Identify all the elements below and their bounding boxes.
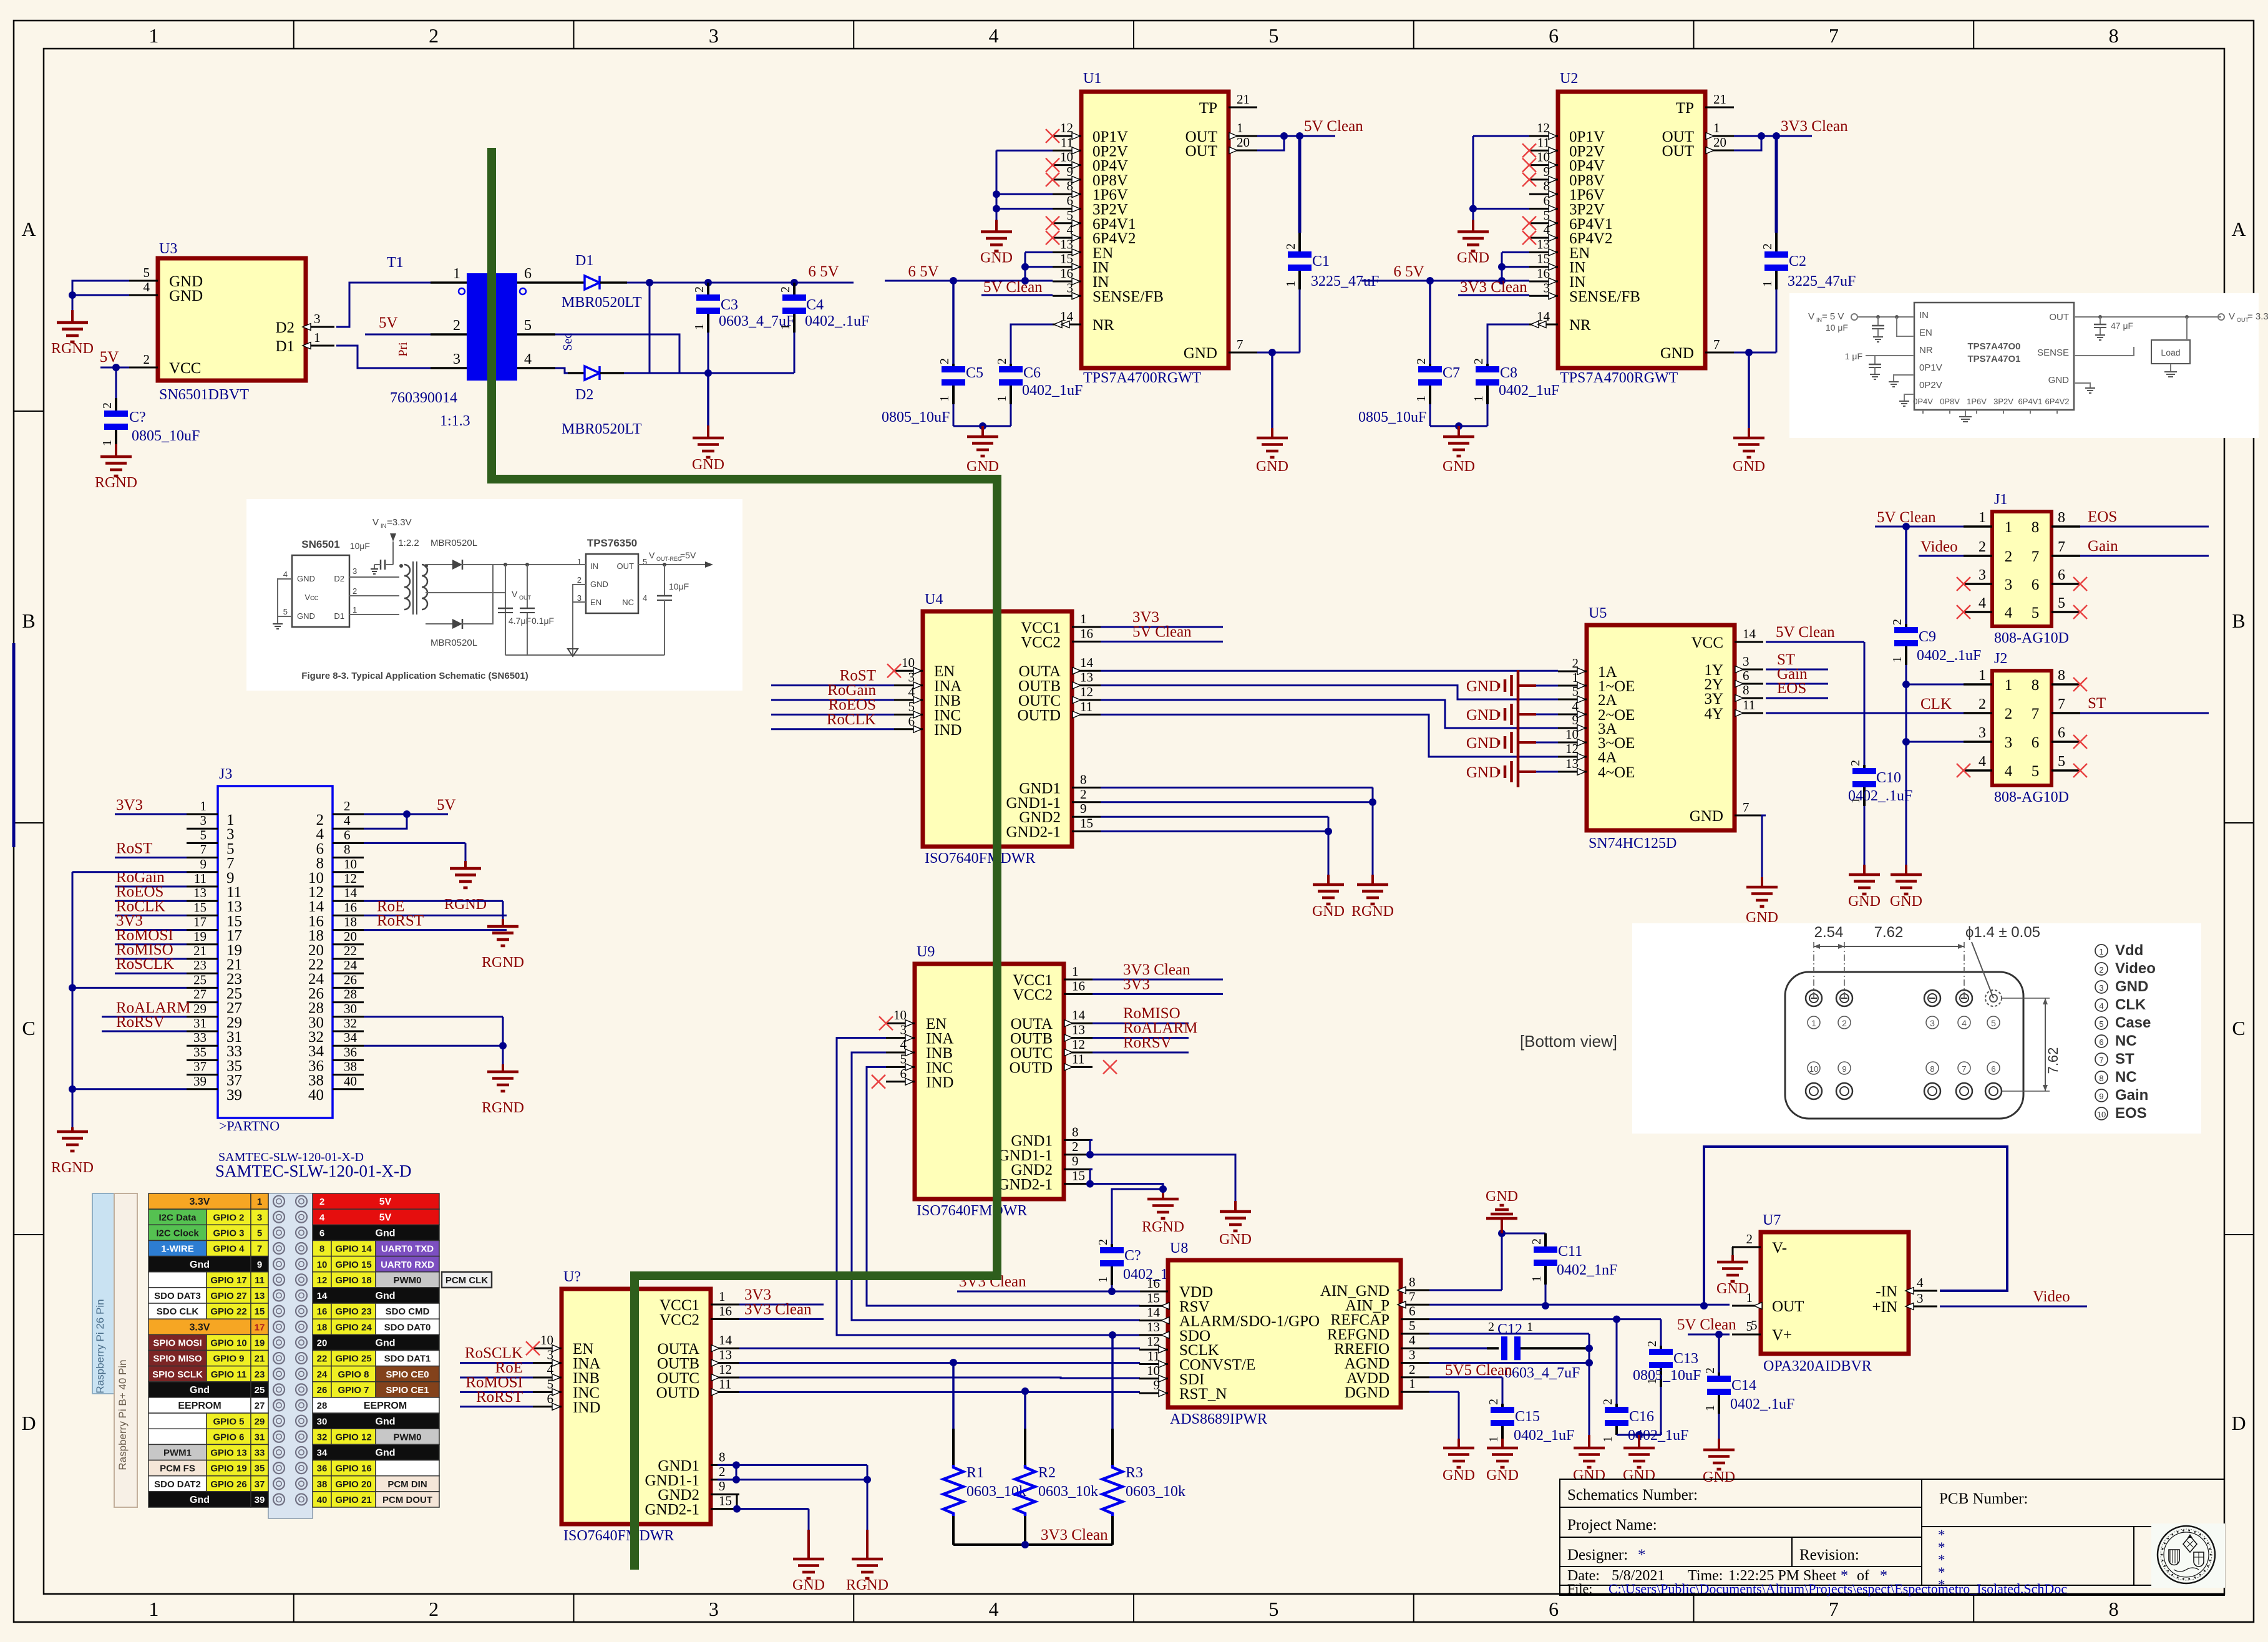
- svg-text:6: 6: [344, 827, 351, 842]
- svg-text:1: 1: [453, 266, 460, 282]
- svg-text:4: 4: [989, 24, 999, 47]
- svg-text:D: D: [2231, 1412, 2246, 1434]
- wire J2 pin7 ST: [2080, 712, 2209, 714]
- svg-text:GND: GND: [1466, 764, 1500, 781]
- svg-text:1: 1: [995, 396, 1009, 402]
- svg-text:PCM DOUT: PCM DOUT: [382, 1495, 432, 1505]
- wire U5 1Y: [1766, 669, 1828, 671]
- svg-text:Project Name:: Project Name:: [1567, 1517, 1657, 1533]
- svg-text:0P8V: 0P8V: [1940, 397, 1960, 406]
- power RGND below U?: [846, 1530, 888, 1593]
- svg-text:39: 39: [255, 1495, 265, 1505]
- svg-text:C7: C7: [1443, 365, 1460, 381]
- svg-text:15: 15: [1072, 1168, 1085, 1183]
- svg-text:RGND: RGND: [51, 1160, 94, 1176]
- svg-text:=3.3V: =3.3V: [387, 517, 412, 528]
- svg-text:13: 13: [1060, 236, 1073, 251]
- svg-text:NR: NR: [1093, 317, 1114, 334]
- svg-text:U7: U7: [1763, 1212, 1781, 1228]
- net label RoRST (J3 pin18): [377, 913, 424, 930]
- svg-text:2: 2: [1601, 1399, 1615, 1405]
- svg-text:C: C: [2232, 1017, 2245, 1039]
- svg-text:1 μF: 1 μF: [1845, 351, 1862, 361]
- junction U? gnd2: [733, 1505, 741, 1513]
- net label 5V_Clean (U5 VCC): [1776, 624, 1835, 641]
- wire U1 OUT to 5V_Clean: [1257, 136, 1335, 150]
- svg-text:0402_.1uF: 0402_.1uF: [805, 313, 869, 329]
- svg-text:13: 13: [255, 1291, 265, 1301]
- junction U2 5V rail: [1426, 277, 1506, 284]
- svg-text:GND: GND: [1486, 1188, 1518, 1205]
- net label Video (U7): [2033, 1288, 2070, 1305]
- svg-text:GPIO 27: GPIO 27: [210, 1291, 246, 1301]
- power GND below C5C6: [966, 426, 999, 475]
- svg-text:30: 30: [344, 1001, 357, 1016]
- junction U1 5V rail: [950, 277, 1029, 284]
- svg-text:GPIO 18: GPIO 18: [335, 1275, 371, 1286]
- svg-text:[Bottom view]: [Bottom view]: [1520, 1032, 1617, 1051]
- junction R3 top: [1109, 1331, 1116, 1339]
- svg-text:OUT-REG: OUT-REG: [656, 556, 682, 562]
- svg-text:12: 12: [344, 871, 357, 886]
- svg-text:C4: C4: [806, 297, 824, 313]
- net label RoEOS (U4): [829, 696, 876, 713]
- svg-text:8: 8: [2032, 519, 2040, 536]
- svg-text:8: 8: [344, 842, 351, 857]
- wire U2 OUT to 3V3_Clean: [1734, 136, 1812, 150]
- svg-text:U2: U2: [1560, 70, 1578, 87]
- power GND below C14: [1703, 1439, 1735, 1485]
- junction U9 gnd1: [1086, 1151, 1094, 1159]
- logo seal (university coat of arms): [2151, 1523, 2225, 1588]
- svg-text:35: 35: [255, 1464, 265, 1474]
- svg-text:7: 7: [1962, 1064, 1966, 1074]
- wire U4 OUTC to U5 3A: [1101, 700, 1558, 728]
- net label EOS (U5 3Y): [1777, 680, 1806, 697]
- svg-text:GND: GND: [1486, 1467, 1519, 1484]
- svg-text:GND: GND: [1660, 345, 1694, 362]
- svg-text:3V3 Clean: 3V3 Clean: [744, 1301, 812, 1318]
- svg-text:5V: 5V: [379, 1197, 392, 1207]
- power RGND below U9: [1142, 1199, 1184, 1235]
- net label RoST (U4): [840, 668, 876, 684]
- svg-text:2: 2: [353, 586, 357, 596]
- svg-text:7: 7: [2032, 548, 2040, 565]
- svg-text:2: 2: [1096, 1239, 1110, 1245]
- svg-text:7: 7: [1409, 1289, 1416, 1304]
- svg-text:Gnd: Gnd: [376, 1228, 396, 1238]
- svg-text:SENSE/FB: SENSE/FB: [1093, 288, 1164, 305]
- svg-text:R2: R2: [1038, 1465, 1056, 1481]
- svg-text:35: 35: [193, 1044, 207, 1059]
- svg-text:40: 40: [317, 1495, 328, 1505]
- svg-text:10: 10: [1147, 1363, 1160, 1378]
- svg-text:2: 2: [1978, 539, 1986, 555]
- svg-text:6P4V2: 6P4V2: [2045, 397, 2069, 406]
- svg-text:3.3V: 3.3V: [190, 1322, 210, 1333]
- svg-text:1: 1: [1978, 668, 1986, 684]
- net label RoRSV (U9 OUTC): [1123, 1034, 1172, 1051]
- junction J1 5V_Clean: [1902, 523, 1910, 530]
- svg-text:GPIO 3: GPIO 3: [213, 1228, 244, 1238]
- svg-text:4: 4: [643, 593, 647, 603]
- svg-text:3: 3: [1917, 1291, 1924, 1306]
- net label 5V (J3 pin2): [437, 797, 456, 814]
- svg-text:GPIO 24: GPIO 24: [335, 1322, 372, 1333]
- net label 3V3 (U? VCC1): [744, 1286, 771, 1303]
- svg-text:B: B: [2232, 610, 2245, 632]
- junction U9 gnd2 branch: [1159, 1185, 1167, 1193]
- svg-text:GPIO 7: GPIO 7: [338, 1385, 369, 1396]
- svg-text:9: 9: [1842, 1064, 1846, 1074]
- wire U3 GND pins to RGND: [72, 281, 129, 310]
- svg-text:21: 21: [1237, 92, 1250, 107]
- svg-text:C11: C11: [1558, 1243, 1582, 1260]
- svg-text:6: 6: [2099, 1037, 2103, 1047]
- svg-text:9: 9: [2099, 1092, 2103, 1101]
- svg-text:R3: R3: [1126, 1465, 1143, 1481]
- no-connect U9 IND: [872, 1075, 885, 1089]
- svg-text:2: 2: [344, 799, 351, 814]
- svg-text:I2C Data: I2C Data: [158, 1212, 197, 1223]
- svg-text:3: 3: [1930, 1018, 1935, 1028]
- svg-text:GND: GND: [1312, 903, 1345, 920]
- junction U1 out: [1280, 132, 1303, 140]
- svg-text:808-AG10D: 808-AG10D: [1994, 789, 2069, 805]
- svg-text:6: 6: [1409, 1304, 1416, 1319]
- net label EOS (J1 pin8): [2088, 508, 2117, 525]
- svg-text:1:1.3: 1:1.3: [440, 413, 470, 429]
- svg-text:GND: GND: [169, 288, 203, 304]
- net label RoMISO (U9 OUTA): [1123, 1005, 1180, 1022]
- svg-text:4~OE: 4~OE: [1598, 764, 1635, 781]
- svg-text:14: 14: [1743, 626, 1756, 641]
- wire RoMOSI to U?: [460, 1391, 533, 1393]
- svg-text:13: 13: [1565, 756, 1579, 771]
- svg-text:*: *: [1938, 1577, 1945, 1593]
- svg-text:NC: NC: [2115, 1032, 2137, 1049]
- wire U4 OUTD to U5 4A: [1101, 714, 1558, 757]
- svg-text:2: 2: [2099, 965, 2103, 974]
- svg-text:Gnd: Gnd: [376, 1291, 396, 1301]
- capacitor C2 3225_47uF: [1761, 136, 1856, 352]
- svg-text:4Y: 4Y: [1704, 706, 1723, 722]
- svg-text:4: 4: [1962, 1018, 1967, 1028]
- svg-text:C:\Users\Public\Documents\Alti: C:\Users\Public\Documents\Altium\Project…: [1609, 1581, 2067, 1596]
- wire U8 AVDD to C15: [1429, 1377, 1502, 1404]
- svg-text:V: V: [649, 550, 655, 560]
- wire U8 AIN_P to U7 OUT: [1429, 1304, 1730, 1306]
- svg-text:24: 24: [344, 958, 358, 973]
- svg-text:-IN: -IN: [1876, 1283, 1897, 1300]
- svg-text:3V3 Clean: 3V3 Clean: [1781, 118, 1848, 135]
- net label Video (J1 pin2): [1920, 538, 1958, 555]
- svg-text:1: 1: [148, 24, 158, 47]
- svg-text:760390014: 760390014: [390, 390, 457, 406]
- svg-text:5: 5: [2058, 595, 2065, 611]
- svg-text:24: 24: [317, 1369, 328, 1380]
- svg-text:0P2V: 0P2V: [1919, 380, 1942, 391]
- svg-text:IN: IN: [381, 523, 386, 529]
- junction U9 gnd2: [1086, 1180, 1094, 1188]
- svg-text:C6: C6: [1023, 365, 1041, 381]
- wire RoCLK to J3: [115, 915, 187, 916]
- svg-text:OUT: OUT: [617, 561, 635, 571]
- wire Video to J1 pin2: [1919, 555, 1964, 557]
- svg-text:7.62: 7.62: [1874, 924, 1904, 941]
- power GND below U4-GND2: [1312, 875, 1345, 920]
- svg-text:ISO7640FMDWR: ISO7640FMDWR: [925, 850, 1035, 867]
- svg-text:3: 3: [453, 351, 460, 367]
- svg-text:33: 33: [255, 1448, 265, 1459]
- svg-text:3.3V: 3.3V: [190, 1197, 210, 1207]
- svg-text:OUTD: OUTD: [1010, 1059, 1053, 1076]
- wire U? OUTB to U8 CONVST: [739, 1362, 1140, 1364]
- wire U5 2Y: [1766, 683, 1828, 685]
- svg-text:0805_10uF: 0805_10uF: [132, 428, 200, 444]
- svg-text:EEPROM: EEPROM: [178, 1401, 221, 1411]
- svg-text:1: 1: [1527, 1320, 1533, 1334]
- svg-text:GND2-1: GND2-1: [645, 1502, 700, 1518]
- svg-text:NC: NC: [2115, 1069, 2137, 1086]
- svg-text:CLK: CLK: [1920, 696, 1952, 712]
- svg-text:1: 1: [938, 396, 951, 402]
- wire RoEOS to U4: [771, 714, 894, 716]
- power RGND at J3 pin14: [482, 919, 524, 971]
- svg-text:Sec: Sec: [561, 333, 575, 351]
- svg-text:13: 13: [719, 1348, 732, 1363]
- svg-text:10: 10: [1565, 727, 1579, 742]
- svg-text:GND: GND: [2115, 978, 2148, 995]
- svg-text:16: 16: [317, 1306, 328, 1317]
- svg-text:GPIO 15: GPIO 15: [335, 1260, 371, 1270]
- svg-text:RGND: RGND: [482, 1100, 524, 1116]
- svg-text:D: D: [21, 1412, 36, 1434]
- svg-text:Figure 8-3. Typical Applicatio: Figure 8-3. Typical Application Schemati…: [301, 671, 528, 681]
- svg-text:17: 17: [255, 1322, 265, 1333]
- svg-text:4: 4: [319, 1212, 325, 1223]
- svg-text:SDO DAT3: SDO DAT3: [154, 1291, 201, 1301]
- svg-text:11: 11: [1072, 1051, 1084, 1066]
- svg-text:2: 2: [1072, 1139, 1079, 1154]
- wire U9 VCC1: [1093, 979, 1223, 981]
- svg-text:7: 7: [2032, 706, 2040, 722]
- IC U1 TPS7A4700RGWT: [1046, 70, 1257, 386]
- svg-text:2.54: 2.54: [1814, 924, 1844, 941]
- svg-text:VCC: VCC: [169, 360, 201, 377]
- power GND below C10: [1848, 865, 1881, 910]
- net label RoALARM (J3 pin29): [116, 999, 190, 1016]
- svg-text:Video: Video: [2033, 1288, 2070, 1305]
- svg-text:1: 1: [148, 1598, 158, 1620]
- svg-text:6 5V: 6 5V: [1393, 263, 1424, 280]
- svg-text:V-: V-: [1772, 1240, 1787, 1256]
- svg-text:ISO7640FMDWR: ISO7640FMDWR: [917, 1203, 1027, 1219]
- svg-text:4: 4: [2099, 1001, 2103, 1011]
- junction AIN_GND gnd node: [1498, 1230, 1506, 1237]
- svg-text:1: 1: [2005, 677, 2013, 694]
- svg-text:GPIO 8: GPIO 8: [338, 1369, 369, 1380]
- svg-text:IND: IND: [926, 1074, 953, 1091]
- resistor R3 0603_10k: [1102, 1335, 1185, 1545]
- svg-text:4: 4: [1978, 595, 1986, 611]
- wire left-border blue segment: [12, 643, 16, 847]
- svg-text:5V Clean: 5V Clean: [1677, 1316, 1736, 1333]
- svg-text:GPIO 14: GPIO 14: [335, 1244, 372, 1255]
- wire U? OUTC to U8 SDI: [739, 1377, 1140, 1378]
- net label CLK (J2 pin2): [1920, 696, 1952, 712]
- svg-text:0805_10uF: 0805_10uF: [1633, 1368, 1701, 1384]
- wire RoALARM to J3: [102, 1016, 187, 1018]
- svg-text:VCC: VCC: [1691, 634, 1723, 651]
- svg-text:EOS: EOS: [2088, 508, 2117, 525]
- wires U2 0P1V/3P2V to GND: [1457, 136, 1529, 266]
- resistor R1 0603_10k: [943, 1363, 1026, 1545]
- svg-text:7: 7: [1713, 337, 1720, 352]
- svg-text:C: C: [22, 1017, 35, 1039]
- capacitor C13 0805_10uF: [1633, 1341, 1701, 1435]
- svg-text:4: 4: [344, 813, 351, 828]
- svg-text:14: 14: [344, 885, 358, 900]
- svg-text:37: 37: [255, 1479, 265, 1490]
- svg-text:File:: File:: [1567, 1581, 1592, 1596]
- svg-text:5V: 5V: [437, 797, 456, 814]
- svg-text:Vcc: Vcc: [304, 593, 318, 602]
- svg-text:1: 1: [1811, 1018, 1816, 1028]
- svg-text:GND: GND: [590, 580, 608, 589]
- resistor R2 0603_10k: [1015, 1391, 1098, 1545]
- net label RoMISO (J3 pin21): [116, 941, 173, 958]
- net label ST (U5 1Y): [1777, 651, 1795, 668]
- svg-text:GPIO 13: GPIO 13: [210, 1448, 246, 1459]
- svg-text:*: *: [1638, 1547, 1646, 1563]
- wire U9 GND2/GND2-1: [1090, 1169, 1163, 1189]
- svg-text:33: 33: [193, 1030, 207, 1045]
- net label 6_5V (U2): [1393, 263, 1424, 280]
- svg-text:1: 1: [779, 324, 792, 330]
- svg-text:12: 12: [1060, 120, 1073, 135]
- diode D1 MBR0520LT: [555, 253, 642, 311]
- wire U5 3Y: [1766, 697, 1828, 699]
- inset image: SN6501 Figure 8-3 typical application: [246, 499, 742, 691]
- svg-text:Case: Case: [2115, 1014, 2151, 1031]
- svg-text:3: 3: [1978, 725, 1986, 741]
- power GND sideways at U5 2~OE: [1466, 699, 1558, 730]
- net label Gain (J1 pin7): [2088, 538, 2118, 555]
- svg-text:6: 6: [2032, 734, 2040, 751]
- svg-text:EN: EN: [590, 598, 601, 607]
- svg-text:47 μF: 47 μF: [2111, 321, 2133, 331]
- svg-text:6: 6: [319, 1228, 324, 1238]
- svg-text:8: 8: [1743, 683, 1750, 697]
- svg-text:EEPROM: EEPROM: [364, 1401, 407, 1411]
- wire 5V_Clean to J1 pin1: [1875, 526, 1964, 528]
- wire U3 D2 to T1 pin1: [336, 283, 431, 327]
- svg-text:0603_4_7uF: 0603_4_7uF: [1504, 1365, 1580, 1381]
- svg-text:GND: GND: [1219, 1231, 1252, 1248]
- net label RoE (J3 pin16): [377, 898, 404, 915]
- svg-text:RGND: RGND: [482, 955, 524, 971]
- svg-text:8: 8: [2058, 510, 2065, 526]
- svg-text:6: 6: [2032, 576, 2040, 593]
- svg-text:C14: C14: [1731, 1377, 1756, 1394]
- capacitor C14 0402_.1uF: [1703, 1334, 1794, 1441]
- svg-text:4: 4: [2005, 605, 2013, 621]
- svg-text:14: 14: [1080, 655, 1094, 670]
- power GND below C3: [692, 373, 724, 473]
- svg-text:1: 1: [1237, 120, 1244, 135]
- svg-text:9: 9: [200, 857, 207, 872]
- svg-text:5: 5: [2058, 754, 2065, 770]
- wire U8 REFGND: [1429, 1334, 1589, 1435]
- svg-text:1: 1: [1414, 396, 1428, 402]
- svg-text:39: 39: [226, 1087, 242, 1104]
- svg-text:10μF: 10μF: [350, 541, 370, 551]
- svg-text:4: 4: [2005, 763, 2013, 780]
- junction U2 gnd: [1745, 349, 1753, 356]
- svg-text:2: 2: [1414, 358, 1428, 364]
- wires U1 EN/IN/IN bus: [1021, 252, 1053, 281]
- svg-text:RoRSV: RoRSV: [116, 1014, 165, 1031]
- svg-text:2: 2: [1488, 1320, 1494, 1334]
- svg-text:4A: 4A: [1598, 749, 1617, 766]
- svg-text:14: 14: [1072, 1008, 1086, 1023]
- svg-text:GND: GND: [1184, 345, 1217, 362]
- wire U1 NR to C6: [1011, 324, 1053, 364]
- wire U8 AGND: [1429, 1362, 1589, 1364]
- svg-text:10: 10: [1809, 1064, 1818, 1074]
- wire J3 pin14 to RGND: [364, 901, 503, 925]
- svg-text:GPIO 16: GPIO 16: [335, 1464, 371, 1474]
- svg-text:12: 12: [317, 1275, 328, 1286]
- svg-text:GPIO 2: GPIO 2: [213, 1212, 244, 1223]
- svg-text:= 5 V: = 5 V: [1822, 311, 1844, 322]
- wire RoSCLK to J3: [115, 973, 187, 974]
- svg-text:2: 2: [719, 1464, 726, 1479]
- svg-text:TP: TP: [1199, 100, 1217, 117]
- wire 5V to J3 pin2/4: [364, 814, 448, 828]
- svg-text:IN: IN: [1816, 317, 1822, 323]
- svg-text:5: 5: [1268, 24, 1278, 47]
- wire 3V3_Clean to U2 SENSE: [1458, 294, 1529, 296]
- svg-text:10: 10: [1060, 150, 1073, 165]
- svg-text:5V: 5V: [100, 349, 119, 366]
- power RGND at J3 pin6: [444, 861, 487, 913]
- svg-text:ϕ1.4 ± 0.05: ϕ1.4 ± 0.05: [1965, 924, 2040, 941]
- svg-text:RoRST: RoRST: [476, 1389, 523, 1406]
- svg-text:SDO DAT2: SDO DAT2: [154, 1479, 201, 1490]
- svg-text:SN6501DBVT: SN6501DBVT: [159, 387, 249, 403]
- svg-text:19: 19: [193, 929, 207, 944]
- inset image: TPS7A4700 typical application (datasheet): [1789, 293, 2268, 438]
- svg-text:7: 7: [2099, 1056, 2103, 1065]
- svg-text:V: V: [1808, 311, 1814, 322]
- svg-text:2: 2: [429, 24, 439, 47]
- junction U? gnd1: [732, 1461, 871, 1483]
- wire U9 OUTC: [1093, 1052, 1189, 1054]
- svg-text:11: 11: [1061, 135, 1073, 150]
- net label RoE (U?): [495, 1359, 523, 1376]
- text J3 partname small: [218, 1150, 364, 1164]
- svg-text:GND: GND: [1623, 1467, 1655, 1484]
- svg-text:2: 2: [779, 286, 792, 293]
- wires U1 0P2V/1P6V/3P2V to GND: [980, 150, 1053, 266]
- wire U2 GND pin7: [1734, 352, 1776, 354]
- wire U8 SDO to U9 INA: [837, 1038, 1140, 1335]
- svg-text:27: 27: [193, 987, 207, 1002]
- svg-text:21: 21: [255, 1354, 265, 1364]
- IC U5 SN74HC125D: [1558, 605, 1763, 852]
